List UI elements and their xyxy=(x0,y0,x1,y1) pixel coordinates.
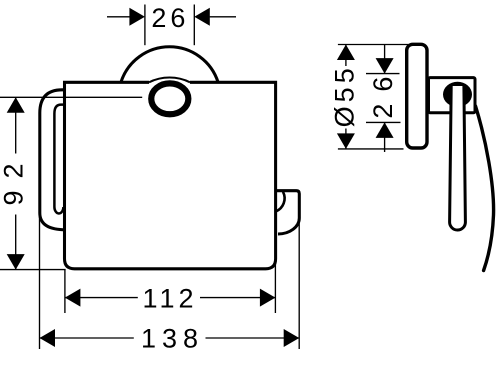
svg-text:26: 26 xyxy=(368,65,398,119)
svg-text:92: 92 xyxy=(0,151,29,205)
svg-text:112: 112 xyxy=(142,283,197,313)
svg-text:26: 26 xyxy=(151,3,189,33)
svg-text:138: 138 xyxy=(141,323,204,353)
svg-text:Ø55: Ø55 xyxy=(330,64,360,127)
